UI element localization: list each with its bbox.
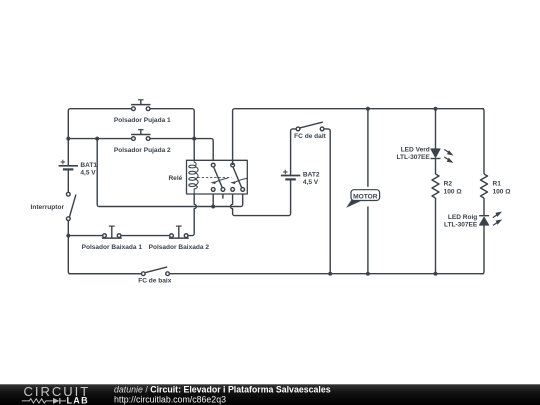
junction dot: Pujada1 down-wire / Pujada2 row	[192, 137, 196, 141]
svg-text:Polsador Baixada 2: Polsador Baixada 2	[149, 244, 210, 251]
relay K1: switch A actuate arrow	[210, 178, 227, 184]
svg-text:Polsador Pujada 2: Polsador Pujada 2	[114, 147, 171, 154]
svg-text:LED Verd: LED Verd	[401, 147, 430, 154]
junction dot: top wire / motor wire	[366, 107, 370, 111]
footer bar	[0, 384, 540, 405]
relay K1: body box	[187, 160, 248, 194]
junction dot: left rail / Baixada row	[66, 234, 70, 238]
svg-text:4,5 V: 4,5 V	[80, 169, 96, 176]
switch Interruptor	[66, 192, 75, 220]
svg-text:LAB: LAB	[67, 395, 89, 405]
wire: BAT2 plus up to FC de dalt left terminal	[291, 129, 297, 176]
svg-text:datunie / Circuit: Elevador i: datunie / Circuit: Elevador i Plataforma…	[114, 385, 331, 395]
wire: LED Verd to R2	[435, 159, 437, 175]
LED D1 LED Roig	[479, 216, 489, 225]
wire: Baixada2 right terminal up to relay coil bottom (hop over bus)	[188, 194, 197, 236]
svg-text:R2: R2	[444, 180, 453, 187]
pushbutton SW: Polsador Baixada 2	[169, 226, 189, 238]
svg-text:LTL-307EE: LTL-307EE	[444, 221, 478, 228]
wire: Baixada row from left rail to Baixada1	[68, 235, 102, 237]
svg-text:http://circuitlab.com/c86e2q3: http://circuitlab.com/c86e2q3	[114, 395, 226, 405]
pushbutton SW: Polsador Baixada 1	[102, 226, 122, 238]
svg-text:LTL-307EE: LTL-307EE	[396, 154, 430, 161]
svg-text:FC de dalt: FC de dalt	[294, 133, 326, 140]
junction dot: left rail / Pujada2 row	[66, 137, 70, 141]
switch FC de dalt	[296, 122, 324, 131]
LED Roig emission arrows	[493, 212, 502, 226]
wire: right rail top (top wire corner down to R1)	[482, 109, 484, 174]
motor callout tail	[346, 200, 362, 208]
wire: bottom rail left segment to FC de baix	[68, 273, 141, 275]
junction dot: x97 rail / Pujada2 row	[95, 137, 99, 141]
svg-text:FC de baix: FC de baix	[138, 277, 171, 284]
wire: Pujada2 row from button right terminal to relay switch A common	[149, 139, 214, 165]
wire: Baixada row between buttons	[121, 235, 170, 237]
pushbutton SW: Polsador Pujada 1	[131, 100, 150, 111]
relay K1: switch B (common, arm, contacts)	[231, 163, 245, 191]
relay K1: switch A (common, arm, contacts)	[211, 163, 224, 191]
wire: LED Verd branch top	[435, 109, 437, 149]
motor callout white halo	[348, 187, 383, 207]
svg-text:R1: R1	[493, 180, 502, 187]
wire: R1 to LED Roig	[483, 198, 485, 216]
wire: relay pin2 dangling stub	[222, 190, 224, 199]
wire: LED Roig to bottom-right corner	[480, 225, 484, 274]
logo resistor-diode squiggle	[22, 398, 66, 404]
svg-text:4,5 V: 4,5 V	[303, 179, 319, 186]
switch FC de baix	[141, 267, 169, 276]
wire: relay pin3 down (hop over bus) to BAT2 minus link	[230, 179, 290, 215]
relay K1: switch B actuate arrow	[230, 178, 247, 184]
svg-text:Polsador Baixada 1: Polsador Baixada 1	[82, 244, 143, 251]
svg-text:100 Ω: 100 Ω	[444, 189, 462, 196]
resistor R1	[481, 174, 488, 198]
wire: bottom rail from FC de baix to bottom-right corner	[169, 273, 484, 275]
wire: R2 to bottom rail	[435, 198, 437, 274]
wire: relay switch B common up to top wire, right to top-right corner	[233, 109, 484, 165]
wire: x97 rail down and bus to relay pin4	[97, 139, 243, 207]
wire: FC de dalt right terminal down to bottom wire	[324, 129, 330, 274]
relay K1: mechanical link dashed line	[198, 176, 232, 178]
battery BAT1	[59, 160, 78, 170]
wire: relay pin1 down to bus	[212, 190, 214, 207]
svg-text:BAT2: BAT2	[303, 172, 320, 179]
wire: top row from Pujada1 right terminal, down to relay coil top	[149, 109, 195, 161]
resistor R2	[432, 174, 439, 198]
junction dot: bottom rail / motor wire	[366, 272, 370, 276]
wire: left rail Interruptor to bottom-left corner	[68, 220, 141, 273]
junction dot: bottom rail / LED-R2 branch	[434, 272, 438, 276]
battery BAT2	[281, 170, 300, 180]
relay K1: coil	[189, 160, 198, 194]
svg-text:BAT1: BAT1	[80, 162, 97, 169]
junction dot: relay pin1 on bus	[211, 205, 215, 209]
junction dot: top wire / LED Verd branch	[434, 107, 438, 111]
wire: left rail top segment (top-left corner to BAT1 plus plate)	[68, 109, 133, 165]
junction dot: bottom rail / FC de dalt branch	[328, 272, 332, 276]
pushbutton SW: Polsador Pujada 2	[131, 130, 150, 141]
wire: Pujada2 row from left rail to button	[68, 138, 133, 140]
svg-text:LED Roig: LED Roig	[448, 214, 477, 221]
svg-text:Relé: Relé	[168, 175, 182, 182]
LED D2 LED Verd	[431, 149, 441, 159]
LED Verd emission arrows	[444, 150, 453, 163]
wire: left rail BAT1 to Interruptor	[67, 169, 69, 192]
wire: motor branch vertical	[367, 109, 369, 274]
svg-text:100 Ω: 100 Ω	[493, 189, 511, 196]
svg-text:Interruptor: Interruptor	[31, 204, 65, 211]
motor callout box	[351, 190, 380, 201]
svg-text:Polsador Pujada 1: Polsador Pujada 1	[114, 117, 171, 124]
svg-text:MOTOR: MOTOR	[353, 194, 378, 201]
